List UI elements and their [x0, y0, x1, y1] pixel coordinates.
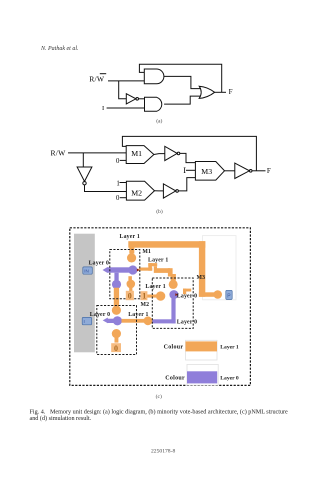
wire layer1 bottom horizontal to output [199, 292, 216, 297]
wire M1 to buffer U3 [154, 153, 165, 156]
OR gate A3 [199, 86, 214, 98]
wire OR output to F [215, 91, 226, 93]
dashed box bottom layer0 [97, 306, 137, 355]
minority gate M3 [195, 162, 224, 181]
outer dashed frame of pNML layout [70, 228, 251, 386]
wire purple bottom input [107, 319, 118, 323]
svg-text:I: I [183, 166, 186, 175]
svg-text:2250178-8: 2250178-8 [151, 449, 175, 455]
svg-text:Layer 0: Layer 0 [177, 294, 197, 300]
svg-text:M2: M2 [131, 188, 142, 197]
node R/W input label [51, 149, 67, 158]
wire layer0 input horizontal [107, 267, 133, 272]
input pad 2 (bottom, on substrate) [82, 317, 92, 324]
magnet dot purple lower [112, 280, 121, 289]
svg-text:Layer 0: Layer 0 [90, 312, 110, 318]
magnet dot M1 top (orange) [127, 253, 136, 262]
node I label at M3 middle input [183, 166, 186, 175]
svg-text:M3: M3 [201, 167, 212, 176]
wire orange bump left riser [148, 263, 152, 271]
magnet dot purple bottom input [113, 316, 122, 325]
overline on W [100, 73, 106, 75]
dashed box M1 [110, 250, 140, 299]
buffer U4 bubble [176, 190, 179, 193]
svg-text:(a): (a) [156, 118, 162, 125]
wire feedback F to AND A1 top input [139, 64, 221, 92]
wire M3 to buffer U5 [225, 170, 235, 172]
wire feedback F to M1 top input [122, 136, 256, 170]
wire R/W to M1 [68, 152, 126, 154]
buffer U5 bubble [249, 170, 252, 173]
svg-text:0: 0 [116, 158, 120, 165]
svg-text:and (d) simulation result.: and (d) simulation result. [30, 415, 92, 422]
wire A1 output to OR A3 [164, 76, 201, 88]
inverter U1 [126, 94, 136, 104]
svg-text:Layer 1: Layer 1 [128, 312, 148, 318]
value label 0 at M2 bottom pin [116, 195, 120, 202]
buffer U3 [165, 146, 177, 160]
stem from main wire to M1 magnet [129, 247, 134, 254]
wire I to AND A2 [107, 107, 145, 109]
svg-text:M1: M1 [131, 149, 142, 158]
wire M2 to buffer U4 [155, 190, 164, 192]
svg-text:F: F [229, 88, 233, 96]
substrate gray bar [74, 234, 95, 353]
magnet dot orange above bottom 0 label [112, 329, 121, 338]
wire orange corner block [168, 268, 173, 276]
wire buffer U4 to M3 bottom input [178, 178, 195, 191]
svg-text:Layer 1: Layer 1 [145, 284, 165, 290]
svg-text:IN: IN [84, 269, 89, 274]
svg-text:I: I [102, 105, 104, 112]
svg-text:I: I [84, 319, 85, 324]
magnet dot orange top of bottom box [112, 306, 121, 315]
wire buffer U3 to M3 top input [180, 153, 196, 162]
wire orange bump top bar [148, 263, 157, 266]
svg-text:1: 1 [116, 180, 119, 187]
input pad 1 (top, on substrate) [83, 267, 93, 274]
input arrowhead layer0 bottom [103, 318, 108, 324]
magnet dot orange with stem above 0 label [127, 280, 136, 289]
light panel behind via region [203, 236, 237, 300]
svg-text:Layer 0: Layer 0 [220, 376, 239, 382]
wire purple horizontal bottom of M3 box [151, 319, 176, 323]
svg-text:Layer 1: Layer 1 [220, 344, 239, 350]
node I input label [102, 105, 104, 112]
AND gate A2 [145, 97, 162, 111]
wire buffer U5 to F [252, 170, 266, 172]
svg-text:M1: M1 [142, 249, 151, 255]
wire 1 to M2 [120, 182, 127, 184]
text labels of pNML layout [89, 234, 206, 326]
svg-text:Layer 0: Layer 0 [177, 319, 197, 325]
wire orange segment to corner [157, 268, 170, 273]
wire orange vertical M1-to-bottom-box [114, 288, 119, 308]
svg-text:Layer 0: Layer 0 [89, 261, 109, 267]
legend entry Layer 0 [187, 364, 218, 385]
svg-text:1: 1 [142, 292, 146, 301]
wire purple tee down [114, 273, 118, 281]
input arrowhead layer0 top [103, 267, 108, 273]
magnet dot purple above M3 box [169, 290, 178, 299]
wire 0 to M2 [120, 197, 127, 199]
buffer U3 bubble [177, 152, 180, 155]
wire orange continuation after purple dot [139, 268, 153, 271]
svg-text:(b): (b) [156, 208, 163, 215]
svg-text:M3: M3 [197, 275, 206, 281]
red domain-wall arrow marker 1 [137, 269, 140, 272]
value pad 1 (right of M1 box) [141, 291, 148, 300]
wire layer1 main vertical drop [199, 241, 205, 297]
wire I to M3 [186, 169, 195, 171]
AND gate A1 [144, 69, 164, 84]
wire junction drop to inverter [119, 81, 127, 99]
legend entry Layer 1 [186, 340, 218, 360]
wire purple vertical in M3 box [171, 297, 175, 323]
magnet dot orange bottom row [144, 316, 153, 325]
svg-text:R/W: R/W [51, 149, 67, 158]
svg-text:F: F [267, 167, 271, 175]
svg-text:Colour: Colour [164, 344, 184, 350]
dashed box layer1/M2/M3 region [152, 278, 193, 328]
wire inverter U2 to M2 middle input [85, 185, 127, 192]
wire R/W to AND A1 [108, 80, 144, 82]
svg-text:M2: M2 [141, 302, 150, 308]
svg-text:Layer 1: Layer 1 [148, 257, 168, 263]
buffer U5 [235, 163, 250, 178]
wire A2 output to OR A3 [164, 96, 201, 104]
wire inverter to AND A2 [139, 98, 145, 100]
svg-text:N. Pathak et al.: N. Pathak et al. [40, 46, 79, 52]
svg-text:R/W: R/W [89, 74, 105, 83]
buffer U4 [163, 184, 175, 198]
value label 0 at M1 pin [116, 158, 120, 165]
minority gate M1 [126, 146, 154, 164]
svg-text:0: 0 [128, 291, 132, 300]
stem above that dot [128, 276, 132, 280]
minority gate M2 [126, 181, 154, 200]
magnet dot purple on input wire [128, 265, 137, 274]
node R/W-bar input label [89, 74, 105, 83]
stem below that dot [115, 338, 119, 343]
wire orange short drop to magnet [171, 274, 176, 281]
orange hook in big box [183, 289, 191, 292]
red domain-wall arrow marker 2 [175, 293, 178, 296]
svg-text:(c): (c) [156, 393, 162, 400]
inverter U2 (pointing down) [77, 167, 92, 181]
svg-text:0: 0 [114, 344, 118, 353]
magnet dot at layer1 output [213, 290, 222, 299]
wire layer1 main horizontal (thick orange) [128, 241, 205, 248]
svg-text:Colour: Colour [165, 376, 185, 382]
magnet dot orange above M3 [169, 280, 178, 289]
svg-text:Fig. 4. Memory unit design:: Fig. 4. Memory unit design: (a) logic di… [30, 408, 289, 415]
output pad 3 [226, 290, 232, 299]
wire 0 to M1 [120, 159, 126, 161]
value label 1 at M2 top pin [116, 180, 119, 187]
keyhole stem from 1 label [146, 295, 156, 298]
node F output label [229, 88, 233, 96]
magnet dot orange right of 1 label [156, 291, 165, 300]
node F output label [267, 167, 271, 175]
wire junction drop to inverter U2 [82, 153, 84, 167]
inverter U2 bubble [83, 182, 86, 185]
wire orange bottom row [122, 319, 145, 323]
wire orange bump right riser [154, 266, 157, 273]
svg-text:Layer 1: Layer 1 [120, 234, 140, 240]
inverter U1 bubble [136, 98, 139, 101]
svg-text:0: 0 [116, 195, 120, 202]
value pad 0 (bottom box) [111, 343, 121, 352]
value pad 0 (in M1 box) [126, 291, 134, 300]
